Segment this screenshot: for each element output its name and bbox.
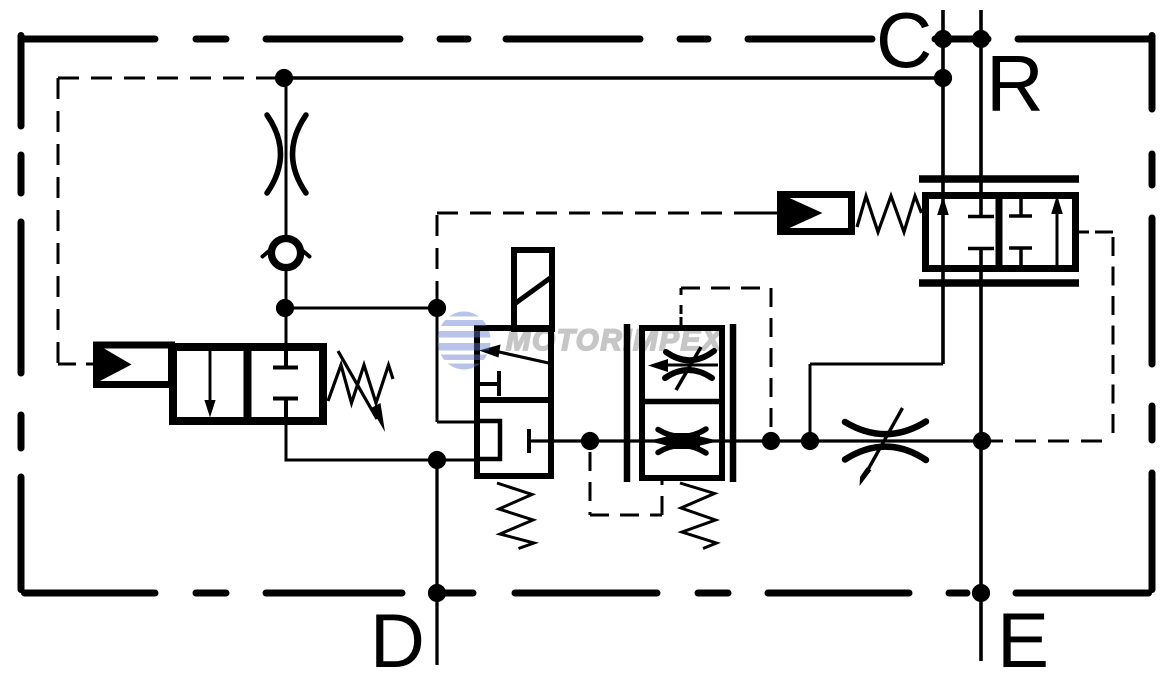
valve V2 lower box outlet xyxy=(527,429,531,453)
check valve ball xyxy=(271,238,300,267)
svg-text:C: C xyxy=(876,0,932,84)
node C on border (943,39) xyxy=(934,30,952,48)
valve V2 spring below xyxy=(497,483,534,549)
valve V2 upper box blocked port xyxy=(479,371,499,396)
wire: dashed pilot line top-left horizontal xyxy=(58,77,276,80)
svg-text:D: D xyxy=(370,599,425,682)
node R on border (981,39) xyxy=(972,30,990,48)
variable throttle (right, on main line) xyxy=(845,422,926,461)
valve V4 right box up arrow xyxy=(1056,208,1059,265)
valve V2 pilot piston diagonal xyxy=(513,276,553,305)
valve V4 divider xyxy=(996,192,1003,272)
node (982,441) xyxy=(973,432,991,450)
node E on border (981,593) xyxy=(972,584,990,602)
valve V2 lower box notch port xyxy=(478,421,500,459)
node (284,78) xyxy=(275,69,293,87)
solenoid Y1 arrow xyxy=(99,346,132,382)
wire: x=286 into left valve top xyxy=(285,308,288,345)
svg-text:R: R xyxy=(986,39,1044,128)
svg-text:E: E xyxy=(997,596,1049,682)
wire: D port line down xyxy=(435,460,438,665)
solenoid Y1 box xyxy=(97,345,172,385)
wire: dashed pilot from node (437,308) up and right to solenoid Y2 xyxy=(437,213,752,302)
valve V1 adjustable spring xyxy=(328,351,393,419)
flow control valve V3 left bar xyxy=(624,324,631,482)
enclosure border bottom edge xyxy=(25,590,1149,597)
node (437,460) xyxy=(428,451,446,469)
wire: left valve drain down and right to D node xyxy=(285,424,475,460)
valve V3 divider xyxy=(639,399,725,405)
node (810,441) xyxy=(801,432,819,450)
node (590,441) xyxy=(581,432,599,450)
valve V2 pilot piston box (top) xyxy=(514,250,552,329)
wire: vertical through orifice and check valve x=286 xyxy=(285,78,288,308)
wire: x=437 down from node (437,308) into compensator notch port xyxy=(437,308,480,422)
flow control valve V3 body xyxy=(642,328,722,478)
node (285,308) xyxy=(276,299,294,317)
flow control valve V3 right bar xyxy=(730,324,737,482)
valve V4 spring xyxy=(857,196,922,232)
compensator valve V2 body xyxy=(477,328,551,476)
enclosure border right edge xyxy=(1149,36,1156,590)
valve V1 left box flow arrow (down) xyxy=(209,348,212,403)
valve V1 body (2 position) xyxy=(173,347,323,421)
check valve seat xyxy=(263,249,310,257)
directional valve V4 top plate bar xyxy=(919,175,1079,183)
wire: horizontal y=308 xyxy=(285,307,437,310)
node (943,78) xyxy=(934,69,952,87)
watermark globe logo (translucent, over ink) xyxy=(436,311,492,370)
valve V1 divider xyxy=(244,343,252,425)
valve V1 right box blocked ports xyxy=(273,347,298,420)
wire: R/E line x=981 lower xyxy=(979,249,983,661)
wire: C port line x=943 xyxy=(941,10,945,364)
wire: dashed continuation y=441 to right, up, and to valve right side xyxy=(982,440,1113,443)
wire: dashed pilot from node (590,441) down-right-up to flow valve bottom xyxy=(590,452,662,515)
directional valve V4 body xyxy=(926,196,1076,269)
valve V4 left box blocked ports xyxy=(968,217,994,249)
valve V3 lower box orifice xyxy=(658,429,706,453)
node (771,441) xyxy=(762,432,780,450)
wire: main line y=441 xyxy=(532,439,982,442)
enclosure border (chain line) top edge xyxy=(25,36,1149,43)
valve V3 upper box variable throttle xyxy=(665,351,714,378)
solenoid Y2 box xyxy=(781,195,852,232)
valve V2 divider xyxy=(474,397,554,403)
wire: LS line y=78 from node to C line xyxy=(284,76,943,79)
wire: R port line x=981 upper xyxy=(979,10,983,216)
enclosure border left edge xyxy=(18,36,25,590)
node D on border (437,593) xyxy=(428,584,446,602)
orifice (fixed restrictor) xyxy=(267,115,306,193)
valve V2 upper box arrow xyxy=(497,352,549,364)
valve V4 right box blocked ports xyxy=(1009,199,1032,265)
node (437,308) xyxy=(428,299,446,317)
solenoid Y2 arrow xyxy=(784,196,823,231)
wire: dashed pilot line left vertical xyxy=(57,78,60,364)
wire: dashed pilot stub into solenoid Y1 xyxy=(58,363,93,366)
valve V4 left box up arrow (on C line) xyxy=(937,197,949,216)
valve V3 spring below xyxy=(680,483,717,549)
directional valve V4 bottom plate bar xyxy=(919,279,1079,287)
wire: flow valve top port with dashed pilot box xyxy=(680,288,683,325)
wire: C line jog left and down to main line xyxy=(810,364,943,441)
